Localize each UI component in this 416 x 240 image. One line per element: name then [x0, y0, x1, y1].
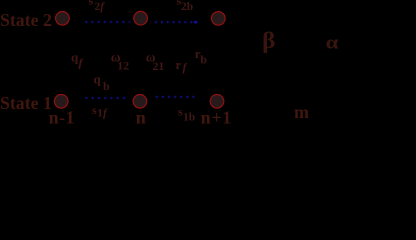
svg-text:21: 21 — [153, 59, 165, 73]
svg-text:n-1: n-1 — [49, 108, 75, 128]
label s1f — [92, 103, 108, 120]
label s1b — [178, 105, 195, 124]
wire dotted bottom left (s1f) — [85, 97, 124, 99]
label omega12 — [111, 49, 129, 72]
node bottom n-1 — [54, 95, 68, 109]
svg-text:2b: 2b — [181, 1, 193, 13]
svg-text:α: α — [326, 32, 339, 53]
svg-text:β: β — [262, 29, 275, 54]
svg-text:m: m — [294, 102, 309, 122]
label s2b — [177, 0, 194, 13]
node bottom n — [133, 95, 147, 109]
node top n — [134, 11, 148, 25]
node top n-1 — [56, 11, 70, 25]
label s2f — [89, 0, 106, 13]
node top n+1 — [212, 12, 226, 26]
svg-text:s: s — [89, 0, 94, 8]
svg-text:q: q — [94, 71, 102, 86]
label qf — [71, 49, 84, 69]
svg-text:n: n — [136, 107, 146, 127]
svg-text:State 1: State 1 — [0, 93, 52, 113]
label qb — [94, 71, 111, 93]
wire dotted bottom right (s1b) — [156, 96, 195, 98]
wire dotted top right (s2b) — [155, 21, 197, 23]
label rb — [195, 46, 208, 67]
svg-text:s: s — [92, 103, 97, 117]
svg-text:b: b — [103, 79, 110, 93]
label omega21 — [146, 49, 165, 73]
label rf — [176, 57, 188, 74]
svg-text:b: b — [200, 53, 207, 67]
svg-text:12: 12 — [117, 58, 129, 72]
svg-text:1b: 1b — [183, 112, 195, 124]
svg-text:n+1: n+1 — [201, 108, 232, 128]
svg-text:State 2: State 2 — [0, 10, 52, 30]
wire dotted top left (s2f) — [85, 21, 130, 23]
svg-text:r: r — [176, 57, 182, 72]
node bottom n+1 — [210, 95, 224, 109]
